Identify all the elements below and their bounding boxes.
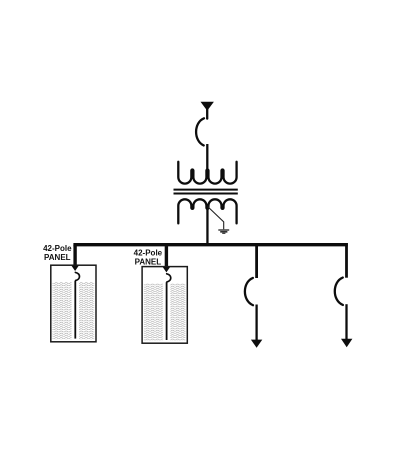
svg-text:PANEL: PANEL [44,253,71,262]
svg-text:42-Pole: 42-Pole [134,249,163,258]
svg-text:42-Pole: 42-Pole [43,244,72,253]
svg-text:PANEL: PANEL [135,257,162,266]
